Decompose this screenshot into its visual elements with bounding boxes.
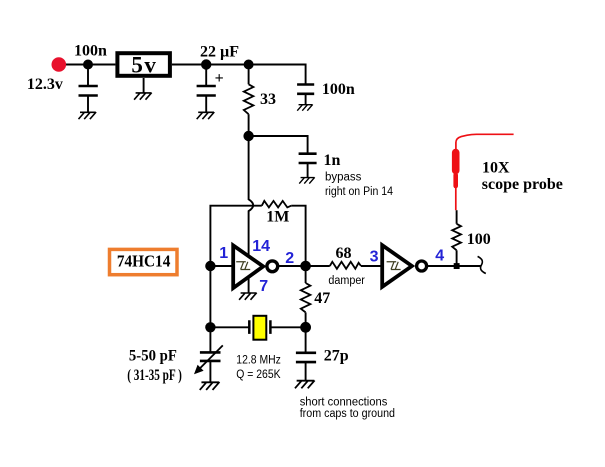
svg-text:100n: 100n xyxy=(322,81,355,98)
svg-text:( 31-35 pF ): ( 31-35 pF ) xyxy=(127,367,182,384)
svg-text:10X: 10X xyxy=(482,160,510,177)
svg-text:100n: 100n xyxy=(74,42,107,59)
svg-text:scope probe: scope probe xyxy=(482,176,563,193)
svg-text:+: + xyxy=(215,70,224,87)
svg-text:1n: 1n xyxy=(324,152,341,169)
svg-text:47: 47 xyxy=(314,290,330,307)
svg-text:74HC14: 74HC14 xyxy=(117,251,171,270)
svg-text:12.8 MHz: 12.8 MHz xyxy=(236,354,281,366)
svg-text:4: 4 xyxy=(435,247,444,264)
svg-text:100: 100 xyxy=(467,231,491,248)
svg-text:5-50 pF: 5-50 pF xyxy=(129,348,177,365)
svg-text:3: 3 xyxy=(370,248,379,265)
svg-text:22 µF: 22 µF xyxy=(200,43,239,60)
svg-text:1M: 1M xyxy=(266,208,289,225)
svg-text:damper: damper xyxy=(328,275,365,287)
svg-text:12.3v: 12.3v xyxy=(27,76,63,93)
svg-text:short connections: short connections xyxy=(300,397,388,409)
svg-text:7: 7 xyxy=(259,278,268,295)
svg-text:33: 33 xyxy=(260,91,276,108)
svg-text:14: 14 xyxy=(252,238,270,255)
svg-text:5v: 5v xyxy=(131,53,157,78)
svg-text:68: 68 xyxy=(336,245,352,262)
svg-text:from caps to ground: from caps to ground xyxy=(300,408,395,420)
svg-text:1: 1 xyxy=(219,245,228,262)
svg-text:27p: 27p xyxy=(324,347,349,364)
svg-text:2: 2 xyxy=(285,250,294,267)
svg-text:right on Pin 14: right on Pin 14 xyxy=(325,186,394,198)
svg-text:bypass: bypass xyxy=(325,171,362,183)
svg-text:Q = 265K: Q = 265K xyxy=(236,369,281,381)
